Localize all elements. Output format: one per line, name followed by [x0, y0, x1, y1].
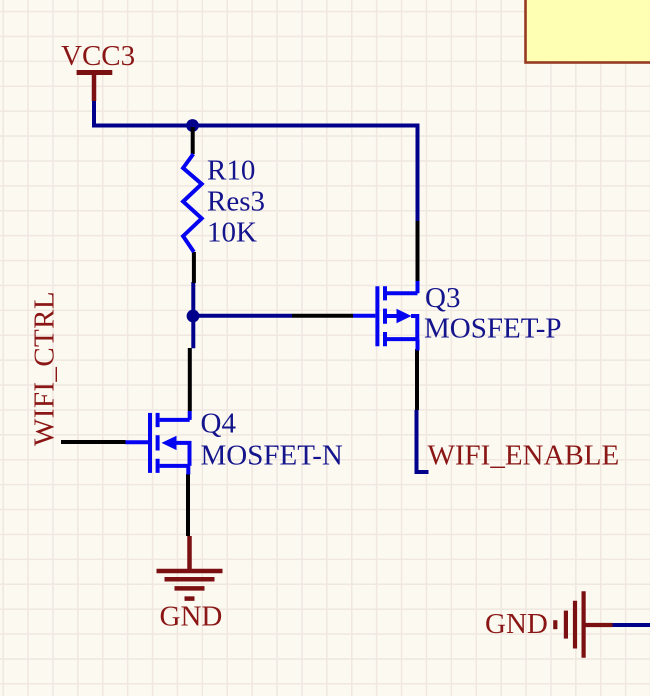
svg-text:GND: GND: [160, 601, 223, 633]
svg-text:VCC3: VCC3: [61, 40, 135, 72]
svg-text:WIFI_CTRL: WIFI_CTRL: [29, 291, 61, 446]
svg-text:Res3: Res3: [207, 186, 265, 218]
svg-text:Q3: Q3: [425, 282, 460, 314]
svg-text:R10: R10: [207, 155, 255, 187]
svg-text:GND: GND: [485, 608, 548, 640]
svg-text:Q4: Q4: [201, 408, 237, 440]
svg-text:10K: 10K: [207, 217, 257, 249]
svg-text:WIFI_ENABLE: WIFI_ENABLE: [428, 440, 620, 472]
svg-text:MOSFET-N: MOSFET-N: [201, 440, 343, 472]
svg-text:MOSFET-P: MOSFET-P: [424, 313, 562, 345]
